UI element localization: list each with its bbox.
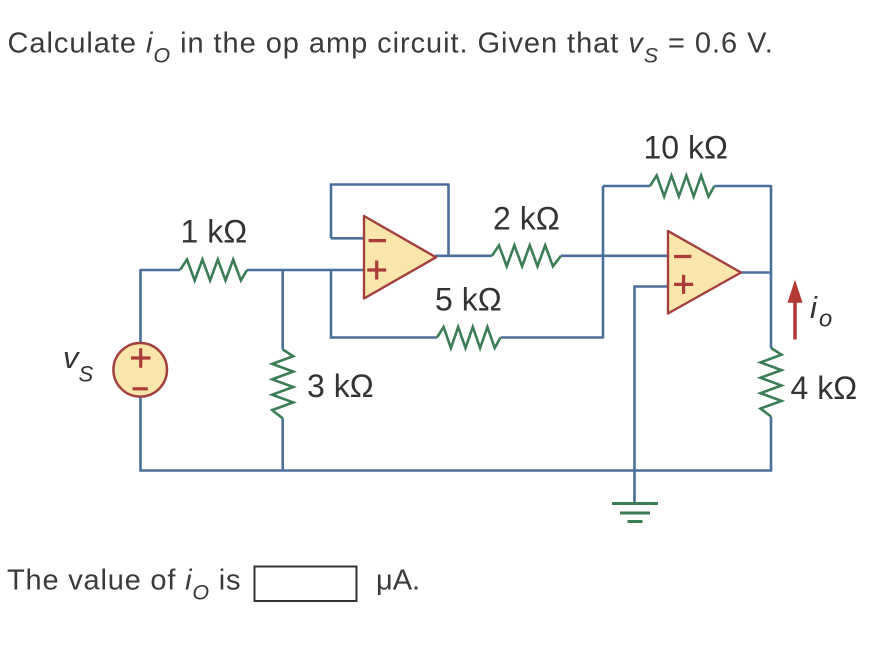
wire: U1 inverting input horizontal bbox=[331, 237, 364, 240]
op-amp U1 bbox=[364, 216, 436, 299]
wire: U1 output to 2k bbox=[435, 255, 492, 258]
wire: U1 feedback loop box bbox=[331, 185, 449, 256]
wire: 10k right lead bbox=[714, 185, 771, 188]
node A: vertical bus joining 10k, 2k and 5k bbox=[602, 186, 605, 339]
wire: right vertical bottom (4k to rail) bbox=[770, 417, 773, 472]
svg-text:μA.: μA. bbox=[376, 565, 420, 597]
svg-text:4 kΩ: 4 kΩ bbox=[791, 370, 858, 406]
wire: ground stem bbox=[633, 471, 636, 504]
wire: 5k path right lead bbox=[501, 336, 604, 339]
svg-text:10 kΩ: 10 kΩ bbox=[644, 130, 728, 166]
resistor R2 2 kOhm bbox=[492, 245, 561, 266]
resistor R3 3 kOhm bbox=[272, 350, 293, 419]
wire: left vertical from 1k to source top bbox=[139, 270, 142, 344]
wire: 3k branch top lead bbox=[281, 270, 284, 350]
wire: 2k to node A bbox=[561, 255, 603, 258]
svg-text:3 kΩ: 3 kΩ bbox=[307, 368, 374, 404]
wire: 3k branch bottom lead bbox=[281, 418, 284, 470]
op-amp U2 bbox=[668, 231, 741, 314]
resistor R5 5 kOhm bbox=[437, 327, 501, 348]
wire: top horizontal right of R1 to op-amp U1 + input bbox=[247, 269, 364, 272]
ground bbox=[612, 504, 658, 522]
wire: 5k path left lead down and across bbox=[331, 269, 437, 338]
resistor R1 1 kOhm bbox=[180, 260, 247, 281]
wire: 10k left lead bbox=[603, 185, 650, 188]
wire: U2 noninverting input to ground drop bbox=[635, 287, 669, 471]
svg-text:2 kΩ: 2 kΩ bbox=[493, 201, 560, 237]
wire: U2 output bbox=[740, 271, 771, 274]
voltage source Vs bbox=[113, 343, 167, 397]
svg-text:5 kΩ: 5 kΩ bbox=[435, 281, 502, 317]
answer input box bbox=[255, 567, 357, 602]
wire: right vertical top (10k to output to 4k) bbox=[770, 185, 773, 348]
resistor R4 4 kOhm bbox=[761, 348, 782, 417]
wire: bottom rail bbox=[140, 469, 773, 472]
wire: left vertical from source bottom to bottom rail bbox=[139, 397, 142, 472]
wire: top horizontal left of R1 bbox=[140, 269, 181, 272]
wire: U2 inverting input horizontal bbox=[603, 255, 668, 258]
resistor R10 10 kOhm bbox=[650, 176, 714, 197]
current arrow io bbox=[787, 280, 802, 340]
svg-text:1 kΩ: 1 kΩ bbox=[181, 214, 248, 250]
